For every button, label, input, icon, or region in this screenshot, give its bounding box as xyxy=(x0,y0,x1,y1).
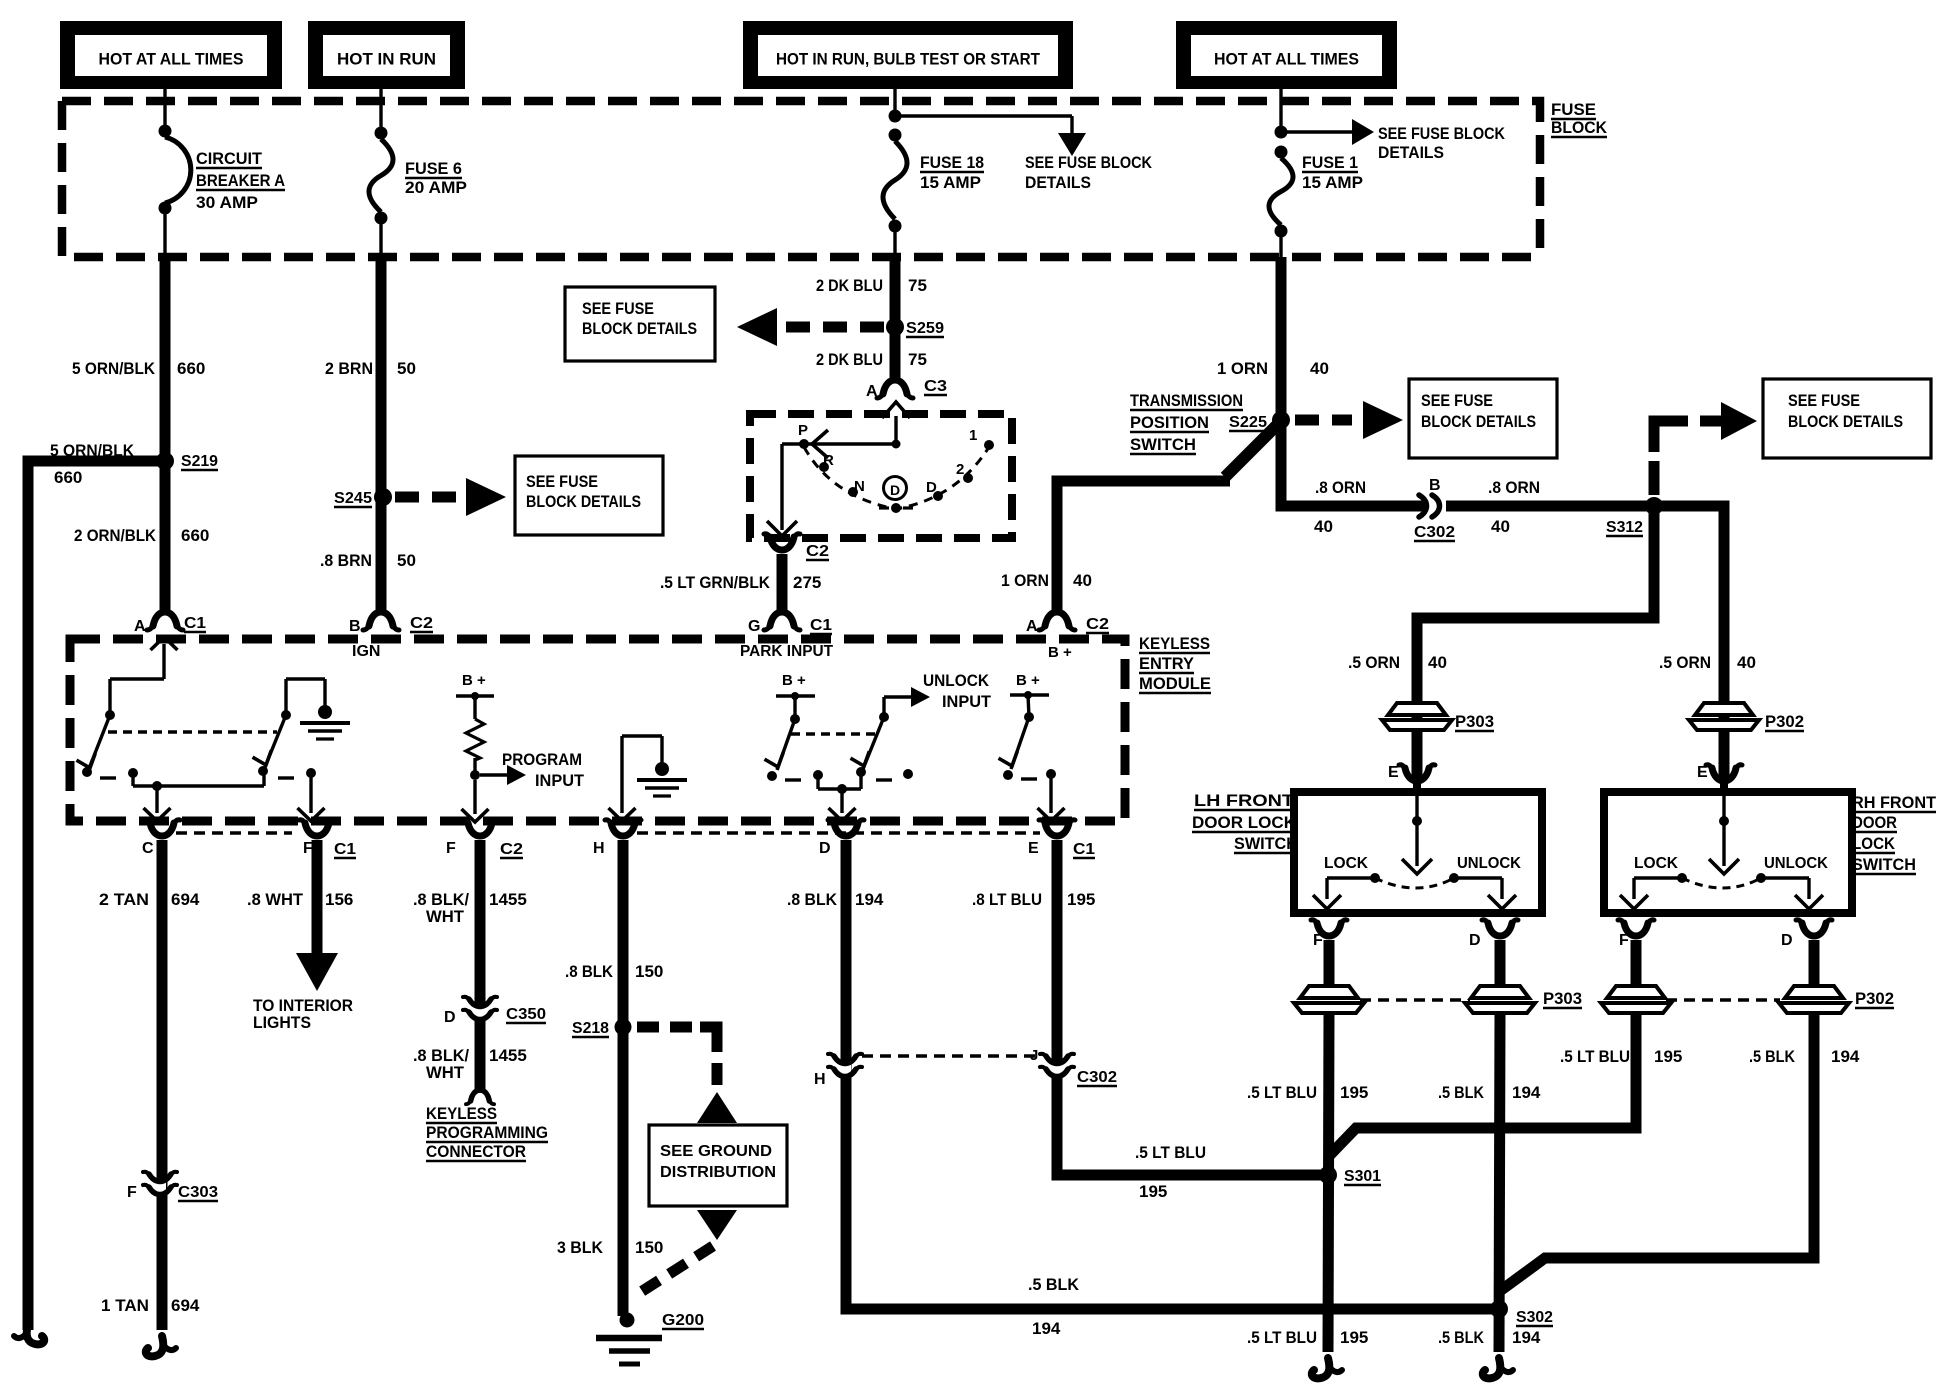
svg-text:1 ORN: 1 ORN xyxy=(1001,571,1049,590)
svg-text:DOOR: DOOR xyxy=(1852,813,1897,832)
svg-text:CONNECTOR: CONNECTOR xyxy=(426,1142,526,1161)
svg-text:15 AMP: 15 AMP xyxy=(1302,173,1363,192)
svg-text:D: D xyxy=(444,1009,456,1026)
svg-text:E: E xyxy=(1697,764,1708,781)
svg-text:1: 1 xyxy=(969,427,977,444)
svg-text:2 BRN: 2 BRN xyxy=(325,359,373,378)
svg-text:30 AMP: 30 AMP xyxy=(196,193,258,212)
svg-text:.8 BLK: .8 BLK xyxy=(565,962,614,981)
svg-text:C303: C303 xyxy=(178,1184,218,1201)
svg-text:40: 40 xyxy=(1491,517,1510,536)
svg-text:HOT IN RUN: HOT IN RUN xyxy=(337,50,436,69)
svg-text:S225: S225 xyxy=(1229,414,1267,431)
svg-text:156: 156 xyxy=(325,890,353,909)
svg-text:SEE FUSE BLOCK: SEE FUSE BLOCK xyxy=(1025,153,1153,172)
svg-text:LOCK: LOCK xyxy=(1324,855,1369,872)
svg-text:3 BLK: 3 BLK xyxy=(557,1238,604,1257)
svg-text:195: 195 xyxy=(1340,1328,1368,1347)
svg-text:INPUT: INPUT xyxy=(535,771,585,790)
svg-text:P: P xyxy=(798,422,808,439)
svg-text:694: 694 xyxy=(171,1296,200,1315)
svg-text:DETAILS: DETAILS xyxy=(1378,143,1444,162)
svg-text:660: 660 xyxy=(54,468,82,487)
svg-text:BLOCK DETAILS: BLOCK DETAILS xyxy=(526,493,641,511)
svg-text:2 DK BLU: 2 DK BLU xyxy=(816,350,883,369)
svg-text:WHT: WHT xyxy=(426,1063,465,1082)
svg-text:E: E xyxy=(1028,840,1039,857)
svg-text:P303: P303 xyxy=(1543,989,1582,1008)
svg-text:660: 660 xyxy=(177,359,205,378)
svg-text:.5 ORN: .5 ORN xyxy=(1348,653,1400,672)
svg-text:2 ORN/BLK: 2 ORN/BLK xyxy=(74,526,157,545)
svg-text:C302: C302 xyxy=(1077,1069,1117,1086)
svg-text:POSITION: POSITION xyxy=(1130,413,1209,432)
svg-text:SEE FUSE: SEE FUSE xyxy=(1421,392,1493,410)
svg-text:N: N xyxy=(854,478,865,495)
svg-text:A: A xyxy=(134,618,146,635)
svg-text:1 ORN: 1 ORN xyxy=(1217,359,1268,378)
svg-text:A: A xyxy=(866,383,878,400)
svg-text:.5 BLK: .5 BLK xyxy=(1438,1083,1485,1102)
svg-text:150: 150 xyxy=(635,1238,663,1257)
svg-text:B +: B + xyxy=(1048,644,1072,661)
svg-text:.5 LT GRN/BLK: .5 LT GRN/BLK xyxy=(660,573,771,592)
svg-text:S312: S312 xyxy=(1606,519,1643,536)
svg-text:5 ORN/BLK: 5 ORN/BLK xyxy=(72,359,156,378)
svg-text:2 TAN: 2 TAN xyxy=(99,890,149,909)
svg-text:1455: 1455 xyxy=(489,890,527,909)
svg-text:C2: C2 xyxy=(806,543,829,560)
svg-text:H: H xyxy=(814,1071,826,1088)
svg-text:DOOR LOCK: DOOR LOCK xyxy=(1192,813,1297,832)
svg-text:HOT IN RUN, BULB TEST OR START: HOT IN RUN, BULB TEST OR START xyxy=(776,50,1041,69)
svg-text:DETAILS: DETAILS xyxy=(1025,173,1091,192)
svg-text:D: D xyxy=(819,840,831,857)
svg-text:75: 75 xyxy=(908,276,927,295)
svg-text:.8 LT BLU: .8 LT BLU xyxy=(972,890,1042,909)
svg-text:E: E xyxy=(1388,764,1399,781)
svg-text:.5 LT BLU: .5 LT BLU xyxy=(1247,1328,1317,1347)
svg-text:B +: B + xyxy=(1016,672,1040,689)
svg-text:S218: S218 xyxy=(572,1020,609,1037)
svg-text:1 TAN: 1 TAN xyxy=(101,1296,149,1315)
svg-text:194: 194 xyxy=(1032,1319,1061,1338)
svg-text:50: 50 xyxy=(397,551,416,570)
svg-text:50: 50 xyxy=(397,359,416,378)
svg-text:40: 40 xyxy=(1310,359,1329,378)
svg-text:C350: C350 xyxy=(506,1006,546,1023)
svg-text:194: 194 xyxy=(855,890,884,909)
svg-text:5 ORN/BLK: 5 ORN/BLK xyxy=(50,441,135,460)
svg-text:S301: S301 xyxy=(1344,1168,1381,1185)
svg-text:SEE FUSE: SEE FUSE xyxy=(1788,392,1860,410)
svg-text:P302: P302 xyxy=(1855,989,1894,1008)
svg-text:TRANSMISSION: TRANSMISSION xyxy=(1130,391,1243,410)
svg-text:WHT: WHT xyxy=(426,907,465,926)
svg-text:DISTRIBUTION: DISTRIBUTION xyxy=(660,1164,776,1181)
svg-text:INPUT: INPUT xyxy=(942,692,992,711)
svg-text:FUSE 1: FUSE 1 xyxy=(1302,153,1358,172)
svg-text:S219: S219 xyxy=(181,453,218,470)
svg-text:G200: G200 xyxy=(662,1312,704,1329)
svg-text:.5 LT BLU: .5 LT BLU xyxy=(1247,1083,1317,1102)
svg-text:RH FRONT: RH FRONT xyxy=(1852,793,1937,812)
svg-text:P303: P303 xyxy=(1455,712,1494,731)
svg-text:H: H xyxy=(593,840,605,857)
svg-text:BLOCK DETAILS: BLOCK DETAILS xyxy=(582,320,697,338)
svg-text:UNLOCK: UNLOCK xyxy=(1764,855,1829,872)
svg-text:.5 ORN: .5 ORN xyxy=(1659,653,1711,672)
svg-text:C1: C1 xyxy=(1073,841,1095,858)
svg-text:IGN: IGN xyxy=(352,643,380,660)
svg-text:F: F xyxy=(1313,932,1323,949)
svg-text:195: 195 xyxy=(1340,1083,1368,1102)
svg-text:FUSE 6: FUSE 6 xyxy=(405,159,462,178)
svg-text:C2: C2 xyxy=(1086,616,1109,633)
svg-text:S245: S245 xyxy=(334,490,372,507)
svg-text:194: 194 xyxy=(1512,1328,1541,1347)
svg-text:1455: 1455 xyxy=(489,1046,527,1065)
svg-text:LH FRONT: LH FRONT xyxy=(1194,791,1295,810)
svg-text:.5 BLK: .5 BLK xyxy=(1438,1328,1485,1347)
svg-text:C2: C2 xyxy=(500,841,523,858)
svg-text:2 DK BLU: 2 DK BLU xyxy=(816,276,883,295)
svg-text:2: 2 xyxy=(956,461,964,478)
svg-text:75: 75 xyxy=(908,350,927,369)
svg-text:15 AMP: 15 AMP xyxy=(920,173,981,192)
svg-text:40: 40 xyxy=(1314,517,1333,536)
svg-text:150: 150 xyxy=(635,962,663,981)
svg-text:BLOCK DETAILS: BLOCK DETAILS xyxy=(1788,413,1903,431)
svg-text:.5 LT BLU: .5 LT BLU xyxy=(1560,1047,1630,1066)
svg-text:R: R xyxy=(823,452,834,469)
svg-text:FUSE 18: FUSE 18 xyxy=(920,153,984,172)
svg-text:C1: C1 xyxy=(810,617,832,634)
svg-text:BLOCK: BLOCK xyxy=(1551,118,1608,137)
svg-text:SEE FUSE BLOCK: SEE FUSE BLOCK xyxy=(1378,124,1506,143)
svg-text:B: B xyxy=(349,618,361,635)
svg-text:.5 BLK: .5 BLK xyxy=(1028,1275,1080,1294)
svg-text:FUSE: FUSE xyxy=(1551,100,1596,119)
svg-text:40: 40 xyxy=(1737,653,1756,672)
svg-text:D: D xyxy=(1781,932,1793,949)
svg-text:PROGRAM: PROGRAM xyxy=(502,750,582,769)
svg-text:KEYLESS: KEYLESS xyxy=(426,1104,497,1123)
svg-text:HOT AT ALL TIMES: HOT AT ALL TIMES xyxy=(1214,50,1359,69)
svg-text:BREAKER A: BREAKER A xyxy=(196,171,285,190)
svg-text:C3: C3 xyxy=(924,378,947,395)
svg-text:SEE FUSE: SEE FUSE xyxy=(582,300,654,318)
svg-text:C2: C2 xyxy=(410,615,433,632)
svg-text:B: B xyxy=(1429,477,1441,494)
svg-text:ENTRY: ENTRY xyxy=(1139,654,1195,673)
svg-text:LIGHTS: LIGHTS xyxy=(253,1013,311,1032)
svg-text:S302: S302 xyxy=(1516,1309,1553,1326)
svg-text:D: D xyxy=(890,482,900,498)
svg-text:C1: C1 xyxy=(184,615,206,632)
svg-text:C1: C1 xyxy=(334,841,356,858)
svg-text:195: 195 xyxy=(1067,890,1095,909)
svg-text:F: F xyxy=(1619,932,1629,949)
svg-text:660: 660 xyxy=(181,526,209,545)
svg-text:40: 40 xyxy=(1428,653,1447,672)
svg-text:B +: B + xyxy=(782,672,806,689)
svg-text:.8 ORN: .8 ORN xyxy=(1315,478,1366,497)
svg-text:F: F xyxy=(127,1184,137,1201)
svg-text:D: D xyxy=(926,479,937,496)
svg-text:A: A xyxy=(1026,618,1038,635)
svg-text:PROGRAMMING: PROGRAMMING xyxy=(426,1123,548,1142)
svg-text:SEE FUSE: SEE FUSE xyxy=(526,473,598,491)
svg-text:.8 BRN: .8 BRN xyxy=(320,551,372,570)
svg-text:694: 694 xyxy=(171,890,200,909)
svg-text:.8 BLK: .8 BLK xyxy=(787,890,838,909)
svg-text:LOCK: LOCK xyxy=(1852,834,1896,853)
svg-text:PARK INPUT: PARK INPUT xyxy=(740,643,833,660)
svg-text:KEYLESS: KEYLESS xyxy=(1139,634,1210,653)
svg-text:SWITCH: SWITCH xyxy=(1130,435,1196,454)
svg-text:.5 BLK: .5 BLK xyxy=(1749,1047,1796,1066)
svg-text:BLOCK DETAILS: BLOCK DETAILS xyxy=(1421,413,1536,431)
svg-text:SEE GROUND: SEE GROUND xyxy=(660,1143,772,1160)
svg-text:195: 195 xyxy=(1654,1047,1682,1066)
svg-text:194: 194 xyxy=(1512,1083,1541,1102)
svg-text:195: 195 xyxy=(1139,1182,1167,1201)
svg-text:B +: B + xyxy=(462,672,486,689)
svg-text:CIRCUIT: CIRCUIT xyxy=(196,149,263,168)
svg-text:D: D xyxy=(1469,932,1481,949)
svg-text:HOT AT ALL TIMES: HOT AT ALL TIMES xyxy=(99,50,244,69)
svg-text:C302: C302 xyxy=(1414,524,1455,541)
svg-text:SWITCH: SWITCH xyxy=(1852,855,1916,874)
svg-text:UNLOCK: UNLOCK xyxy=(1457,855,1522,872)
svg-text:.8 WHT: .8 WHT xyxy=(247,890,304,909)
svg-text:.5 LT BLU: .5 LT BLU xyxy=(1135,1143,1206,1162)
svg-text:G: G xyxy=(748,618,760,635)
svg-text:C: C xyxy=(142,840,154,857)
svg-text:40: 40 xyxy=(1073,571,1092,590)
svg-text:MODULE: MODULE xyxy=(1139,674,1211,693)
svg-text:.8 ORN: .8 ORN xyxy=(1488,478,1540,497)
svg-text:194: 194 xyxy=(1831,1047,1860,1066)
svg-text:UNLOCK: UNLOCK xyxy=(923,671,990,690)
svg-text:275: 275 xyxy=(793,573,821,592)
svg-text:20 AMP: 20 AMP xyxy=(405,178,467,197)
svg-text:SWITCH: SWITCH xyxy=(1234,834,1298,853)
svg-text:P302: P302 xyxy=(1765,712,1804,731)
svg-text:S259: S259 xyxy=(906,320,944,337)
svg-text:LOCK: LOCK xyxy=(1634,855,1679,872)
svg-text:F: F xyxy=(446,840,456,857)
